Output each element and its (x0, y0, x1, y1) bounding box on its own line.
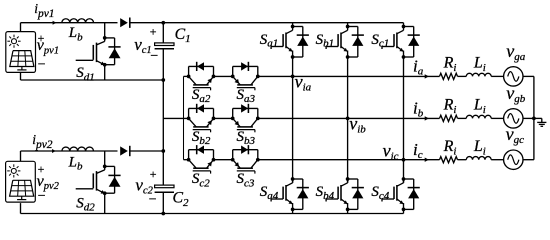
wire bus to row a (184, 75, 189, 77)
wire bottom rail (21, 213, 404, 215)
wire leg a middle (292, 57, 294, 183)
node v_ic (402, 158, 406, 162)
current arrow i_pv2 (52, 149, 56, 153)
svg-text:+: + (150, 167, 157, 181)
svg-text:via: via (295, 72, 312, 94)
svg-text:Sd2: Sd2 (76, 195, 95, 213)
node v_ia (291, 75, 295, 79)
svg-text:vib: vib (349, 114, 366, 136)
wire top rail (C1 node to inverter) (163, 22, 403, 24)
resistor R_i (phase c) (440, 157, 458, 163)
svg-text:Sa4: Sa4 (260, 184, 279, 202)
svg-text:ic: ic (413, 140, 423, 161)
switch S_c3 (bidirectional cell) (231, 145, 260, 174)
svg-text:C1: C1 (175, 26, 191, 45)
svg-text:Sa2: Sa2 (192, 87, 211, 105)
current arrow i_pv1 (53, 21, 57, 25)
svg-text:Sb2: Sb2 (192, 129, 211, 147)
current arrow i_c (425, 158, 429, 162)
wire phase c row (258, 159, 440, 161)
wire row b mid-link (214, 117, 233, 119)
wire PV2 bottom lead (20, 203, 22, 213)
resistor R_i (phase b) (440, 115, 458, 121)
transistor S_b4 (bottom IGBT) (326, 177, 364, 211)
svg-text:Li: Li (473, 138, 486, 157)
wire boost1 return (21, 79, 164, 81)
wire boost2 output (130, 150, 164, 152)
transistor S_b1 (top IGBT) (326, 25, 364, 59)
wire row c mid-link (214, 159, 233, 161)
wire PV2 top lead (20, 151, 22, 161)
svg-text:Li: Li (473, 97, 486, 116)
junction neutral/boost1 return (161, 78, 165, 82)
svg-text:Sa1: Sa1 (260, 32, 279, 50)
svg-text:−: − (149, 192, 157, 207)
wire rail above C1 (162, 23, 164, 43)
transistor S_a4 (bottom IGBT) (271, 177, 309, 211)
wire top rail (boost1 input to diode) (21, 22, 118, 24)
wire source to right rail (phase b) (523, 117, 534, 119)
wire leg a to bottom rail (292, 209, 294, 213)
wire PV1 top lead (20, 23, 22, 32)
wire leg c to bottom rail (403, 209, 405, 213)
svg-text:Sc2: Sc2 (192, 171, 210, 189)
svg-text:C2: C2 (173, 190, 190, 209)
wire L to source (phase b) (491, 117, 503, 119)
capacitor C1 (155, 43, 174, 49)
svg-text:ib: ib (413, 98, 424, 119)
wire leg c middle (403, 57, 405, 183)
inductor L_i (phase c) (466, 157, 491, 160)
svg-text:Sc4: Sc4 (371, 184, 389, 202)
inductor L_i (phase b) (466, 115, 491, 118)
switch S_c2 (bidirectional cell) (187, 145, 216, 174)
PV panel PV2 (6, 161, 36, 202)
svg-text:Lb: Lb (68, 25, 83, 43)
switch S_b2 (bidirectional cell) (187, 104, 216, 133)
wire leg b middle (347, 57, 349, 183)
ground (534, 118, 547, 126)
wire leg b to bottom rail (347, 209, 349, 213)
svg-text:vpv1: vpv1 (37, 37, 59, 56)
wire top rail (diode D1 to C1 node) (130, 22, 164, 24)
svg-text:+: + (150, 25, 157, 39)
wire row a mid-link (214, 75, 233, 77)
svg-text:Sb4: Sb4 (316, 184, 335, 202)
wire R-L link (phase c) (458, 159, 467, 161)
current arrow i_b (425, 116, 429, 120)
inductor L_b (lower) (62, 147, 94, 151)
svg-text:Lb: Lb (68, 154, 83, 172)
svg-text:Sb1: Sb1 (316, 32, 335, 50)
diode D2 (boost2) (120, 146, 130, 156)
wire neutral rail (C1 to C2) (162, 49, 164, 185)
source v_gb (AC source) (504, 109, 523, 128)
wire leg b from top rail (347, 23, 349, 27)
svg-text:Ri: Ri (443, 55, 457, 74)
capacitor C2 (155, 185, 174, 192)
wire matrix bus vertical (183, 76, 185, 159)
svg-text:ia: ia (413, 56, 424, 77)
transistor Sd2 (boost2 IGBT) (76, 151, 121, 214)
wire PV1 bottom lead (20, 72, 22, 80)
svg-text:Ri: Ri (443, 138, 457, 157)
wire source to right rail (phase a) (523, 75, 534, 77)
switch S_b3 (bidirectional cell) (231, 104, 260, 133)
wire phase a row (258, 75, 440, 77)
svg-text:Li: Li (473, 55, 486, 74)
inductor L_b (upper) (62, 19, 94, 23)
switch S_a2 (bidirectional cell) (187, 62, 216, 91)
wire right rail (533, 76, 535, 159)
PV panel PV1 (6, 32, 36, 73)
svg-text:Sd1: Sd1 (76, 65, 95, 83)
wire leg c from top rail (403, 23, 405, 27)
wire R-L link (phase b) (458, 117, 467, 119)
wire leg a from top rail (292, 23, 294, 27)
svg-text:Ri: Ri (443, 97, 457, 116)
current arrow i_a (425, 74, 429, 78)
svg-text:vic: vic (383, 141, 399, 163)
source v_ga (AC source) (504, 67, 523, 86)
svg-text:Sb3: Sb3 (237, 129, 256, 147)
wire L to source (phase c) (491, 159, 503, 161)
junction top rail / C1 (161, 21, 165, 25)
svg-text:Sa3: Sa3 (237, 87, 256, 105)
wire rail below C2 (162, 192, 164, 213)
inductor L_i (phase a) (466, 73, 491, 76)
wire neutral to row b (163, 117, 188, 119)
junction neutral/boost2 output (161, 149, 165, 153)
svg-text:vga: vga (506, 41, 526, 63)
diode D1 (boost1) (120, 18, 130, 28)
node v_ib (346, 117, 350, 121)
wire phase b row (258, 117, 440, 119)
resistor R_i (phase a) (440, 73, 458, 79)
svg-text:vpv2: vpv2 (37, 173, 60, 192)
svg-text:−: − (150, 49, 158, 64)
source v_gc (AC source) (504, 150, 523, 169)
svg-text:Sc3: Sc3 (237, 171, 255, 189)
switch S_a3 (bidirectional cell) (231, 62, 260, 91)
junction right rail / ground (532, 117, 536, 121)
svg-text:ipv1: ipv1 (34, 1, 54, 20)
transistor Sd1 (boost1 IGBT) (76, 23, 121, 80)
junction bottom rail / C2 (161, 212, 165, 216)
transistor S_c1 (top IGBT) (382, 25, 420, 59)
svg-text:−: − (38, 58, 46, 73)
transistor S_a1 (top IGBT) (271, 25, 309, 59)
wire L to source (phase a) (491, 75, 503, 77)
wire boost2 input (21, 150, 118, 152)
wire bus to row c (184, 159, 189, 161)
transistor S_c4 (bottom IGBT) (382, 177, 420, 211)
wire source to right rail (phase c) (523, 159, 534, 161)
svg-text:Sc1: Sc1 (371, 32, 389, 50)
svg-text:ipv2: ipv2 (32, 132, 53, 151)
wire R-L link (phase a) (458, 75, 467, 77)
